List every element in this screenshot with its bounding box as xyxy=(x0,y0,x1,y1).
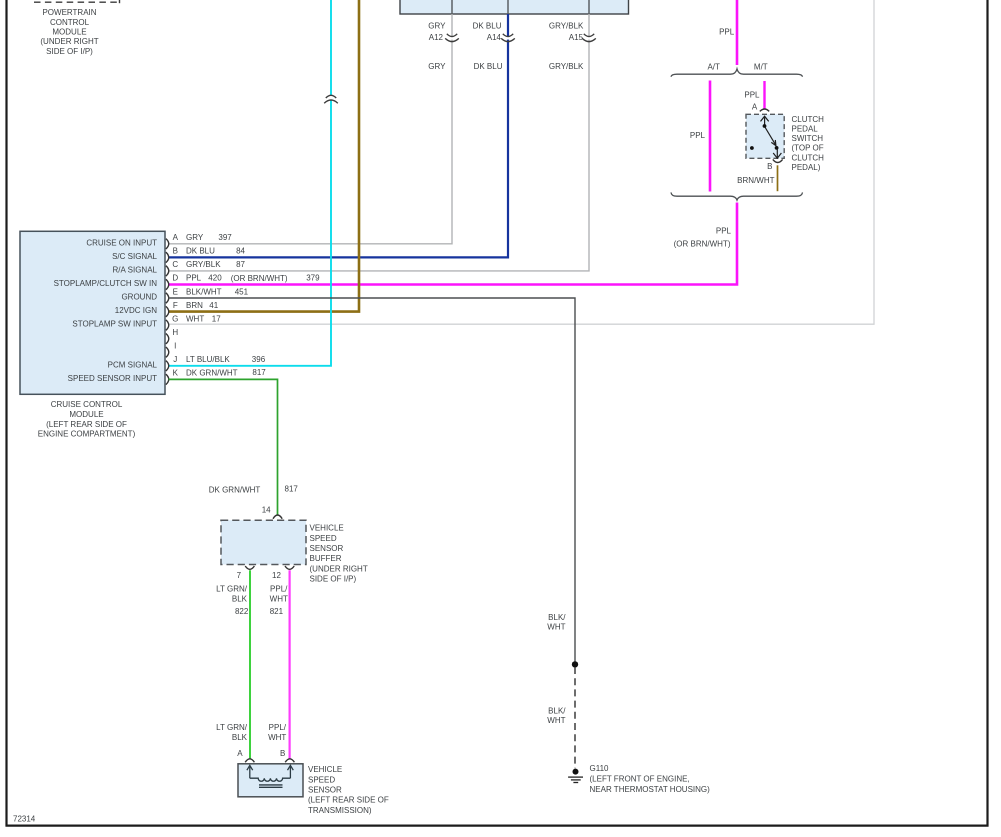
svg-text:VEHICLE: VEHICLE xyxy=(308,765,342,774)
pin G cruise module xyxy=(72,314,221,330)
svg-text:J: J xyxy=(173,355,177,364)
svg-text:K: K xyxy=(173,369,179,378)
svg-text:C: C xyxy=(172,260,178,269)
pin H cruise module xyxy=(166,328,179,344)
wire LT GRN/BLK 822 (buffer pin 7 to VSS pin A) xyxy=(249,570,251,758)
svg-text:PEDAL: PEDAL xyxy=(792,125,819,134)
svg-text:I: I xyxy=(174,342,176,351)
pin F cruise module xyxy=(115,301,219,317)
inline connector at A14 xyxy=(506,37,509,40)
svg-text:CRUISE CONTROL: CRUISE CONTROL xyxy=(51,400,123,409)
pin D cruise module xyxy=(54,274,321,290)
svg-text:MODULE: MODULE xyxy=(52,28,86,37)
wire DK GRN/WHT 817 (cruise module pin K to buffer pin 14) xyxy=(169,379,278,515)
svg-text:WHT: WHT xyxy=(268,733,286,742)
svg-text:PPL: PPL xyxy=(716,227,732,236)
svg-text:GRY: GRY xyxy=(186,233,204,242)
svg-text:STOPLAMP SW INPUT: STOPLAMP SW INPUT xyxy=(72,320,157,329)
svg-text:87: 87 xyxy=(236,260,245,269)
pin A15 labels xyxy=(549,21,584,71)
wire PPL 420 (OR BRN/WHT 379) to cruise module pin D xyxy=(169,203,737,285)
label PPL/WHT 821 (upper) xyxy=(270,585,288,616)
svg-text:PPL/: PPL/ xyxy=(269,723,287,732)
module U3 vehicle speed sensor buffer xyxy=(221,520,306,564)
junction splice on BLK/WHT wire xyxy=(572,661,578,667)
svg-text:84: 84 xyxy=(236,247,245,256)
svg-text:817: 817 xyxy=(285,485,299,494)
svg-text:SWITCH: SWITCH xyxy=(792,134,824,143)
svg-text:STOPLAMP/CLUTCH SW IN: STOPLAMP/CLUTCH SW IN xyxy=(54,279,158,288)
module U1 powertrain control module (dashed outline, cut off at top) xyxy=(34,0,120,3)
svg-text:B: B xyxy=(767,162,772,171)
svg-text:DK GRN/WHT: DK GRN/WHT xyxy=(186,369,238,378)
inline connector on LT BLU/BLK wire xyxy=(330,95,333,100)
label clutch pedal switch xyxy=(792,115,825,172)
label BLK/WHT (lower) xyxy=(547,707,566,726)
svg-text:SENSOR: SENSOR xyxy=(308,786,342,795)
wire WHT 17 (cruise module pin G, off top of page) xyxy=(169,0,874,324)
inline connector at A12 xyxy=(451,37,454,40)
svg-text:SPEED: SPEED xyxy=(310,534,337,543)
svg-text:CLUTCH: CLUTCH xyxy=(792,115,825,124)
svg-text:GROUND: GROUND xyxy=(121,293,157,302)
svg-text:A/T: A/T xyxy=(707,62,720,71)
pin J cruise module xyxy=(108,355,266,371)
svg-text:VEHICLE: VEHICLE xyxy=(310,524,344,533)
pin 12 of VSS buffer xyxy=(285,566,294,569)
svg-text:BLK: BLK xyxy=(232,733,248,742)
pin B of vehicle speed sensor xyxy=(285,759,294,763)
svg-text:WHT: WHT xyxy=(186,314,204,323)
svg-text:D: D xyxy=(172,274,178,283)
svg-text:BRN/WHT: BRN/WHT xyxy=(737,176,774,185)
svg-text:DK BLU: DK BLU xyxy=(474,62,503,71)
svg-text:420: 420 xyxy=(208,274,222,283)
svg-text:12: 12 xyxy=(272,571,281,580)
svg-text:(LEFT FRONT OF ENGINE,: (LEFT FRONT OF ENGINE, xyxy=(590,774,690,783)
svg-text:BUFFER: BUFFER xyxy=(310,554,342,563)
wire GRY 397 (PCM A12 to cruise module pin A) xyxy=(169,14,452,244)
brace merge A/T - M/T xyxy=(671,192,803,200)
svg-text:(OR BRN/WHT): (OR BRN/WHT) xyxy=(231,274,288,283)
sensor VSS vehicle speed sensor xyxy=(238,764,303,797)
svg-text:POWERTRAIN: POWERTRAIN xyxy=(42,8,96,17)
svg-text:GRY/BLK: GRY/BLK xyxy=(549,62,584,71)
svg-text:12VDC IGN: 12VDC IGN xyxy=(115,306,157,315)
svg-text:7: 7 xyxy=(237,571,242,580)
svg-text:A: A xyxy=(752,102,758,111)
svg-text:817: 817 xyxy=(252,368,266,377)
svg-text:PPL: PPL xyxy=(719,28,735,37)
pin A of vehicle speed sensor xyxy=(245,759,254,763)
module U2 cruise control module xyxy=(20,231,165,394)
svg-text:NEAR THERMOSTAT HOUSING): NEAR THERMOSTAT HOUSING) xyxy=(590,785,711,794)
svg-text:CLUTCH: CLUTCH xyxy=(792,153,825,162)
pin C cruise module xyxy=(113,260,246,276)
svg-text:G110: G110 xyxy=(590,764,610,773)
label U3 vehicle speed sensor buffer location xyxy=(310,524,368,584)
svg-text:E: E xyxy=(173,287,178,296)
svg-text:LT GRN/: LT GRN/ xyxy=(216,585,248,594)
wire BRN/WHT from clutch switch pin B xyxy=(777,165,779,191)
pin A12 labels xyxy=(428,21,446,71)
svg-text:SIDE OF I/P): SIDE OF I/P) xyxy=(310,575,357,584)
svg-text:(LEFT REAR SIDE OF: (LEFT REAR SIDE OF xyxy=(46,420,127,429)
svg-text:BLK/WHT: BLK/WHT xyxy=(186,287,222,296)
svg-text:GRY: GRY xyxy=(428,62,446,71)
svg-text:379: 379 xyxy=(306,274,320,283)
svg-text:BLK: BLK xyxy=(232,594,248,603)
wire PPL/WHT 821 (buffer pin 12 to VSS pin B) xyxy=(289,570,291,758)
ground G110 xyxy=(568,769,583,783)
svg-text:451: 451 xyxy=(235,287,249,296)
wire PPL A/T branch xyxy=(709,81,712,192)
wire GRY/BLK 87 (PCM A15 to cruise module pin C) xyxy=(169,14,589,271)
svg-text:PPL: PPL xyxy=(744,91,760,100)
svg-text:PEDAL): PEDAL) xyxy=(792,163,821,172)
svg-text:WHT: WHT xyxy=(547,716,565,725)
svg-text:CRUISE ON INPUT: CRUISE ON INPUT xyxy=(86,238,157,247)
pin A of clutch pedal switch xyxy=(760,109,769,111)
pin K cruise module xyxy=(68,368,267,384)
svg-text:LT GRN/: LT GRN/ xyxy=(216,723,248,732)
svg-text:WHT: WHT xyxy=(270,594,288,603)
wire DK BLU 84 (PCM A14 to cruise module pin B) xyxy=(169,14,508,257)
brace A/T - M/T split xyxy=(671,69,803,77)
pin I cruise module xyxy=(166,342,177,358)
svg-text:SPEED SENSOR INPUT: SPEED SENSOR INPUT xyxy=(68,374,157,383)
svg-text:(UNDER RIGHT: (UNDER RIGHT xyxy=(310,564,368,573)
svg-text:821: 821 xyxy=(270,607,284,616)
pin 14 of VSS buffer xyxy=(273,515,282,519)
svg-text:BLK/: BLK/ xyxy=(548,613,566,622)
svg-text:DK GRN/WHT: DK GRN/WHT xyxy=(209,486,261,495)
svg-text:BLK/: BLK/ xyxy=(548,707,566,716)
svg-text:PPL/: PPL/ xyxy=(270,585,288,594)
svg-text:A15: A15 xyxy=(569,33,584,42)
connector block of PCM (cut off at top) xyxy=(400,0,629,14)
svg-text:GRY/BLK: GRY/BLK xyxy=(549,21,584,30)
svg-text:SENSOR: SENSOR xyxy=(310,544,344,553)
svg-text:396: 396 xyxy=(252,355,266,364)
svg-text:41: 41 xyxy=(209,301,218,310)
wire BLK/WHT dashed segment to G110 xyxy=(574,667,576,768)
label BLK/WHT (upper) xyxy=(547,613,566,632)
svg-text:822: 822 xyxy=(235,607,249,616)
svg-text:CONTROL: CONTROL xyxy=(50,18,90,27)
wire BLK/WHT 451 (cruise module pin E to G110) xyxy=(169,298,575,662)
pin B cruise module xyxy=(112,247,245,263)
svg-text:PPL: PPL xyxy=(690,131,706,140)
label LT GRN/BLK 822 (upper) xyxy=(216,585,249,616)
svg-text:PCM SIGNAL: PCM SIGNAL xyxy=(108,360,158,369)
svg-text:A12: A12 xyxy=(429,33,444,42)
svg-text:(LEFT REAR SIDE OF: (LEFT REAR SIDE OF xyxy=(308,796,389,805)
svg-text:WHT: WHT xyxy=(547,623,565,632)
svg-text:BRN: BRN xyxy=(186,301,203,310)
svg-text:(OR BRN/WHT): (OR BRN/WHT) xyxy=(674,239,731,248)
pin B of clutch pedal switch xyxy=(773,159,783,162)
wire BRN 41 (cruise module pin F, off top of page) xyxy=(169,0,359,312)
pin 7 of VSS buffer xyxy=(245,566,254,569)
label PPL/WHT (lower) xyxy=(268,723,287,742)
wire LT BLU/BLK 396 (cruise module pin J, off top of page) xyxy=(169,0,331,366)
wire PPL 420 from top of page xyxy=(736,0,739,65)
svg-text:A: A xyxy=(237,749,243,758)
svg-text:B: B xyxy=(173,247,178,256)
svg-text:B: B xyxy=(280,749,285,758)
inline connector at A15 xyxy=(588,37,591,40)
svg-text:72314: 72314 xyxy=(13,815,36,824)
pin E cruise module xyxy=(121,287,248,303)
svg-text:397: 397 xyxy=(218,233,232,242)
svg-text:(TOP OF: (TOP OF xyxy=(792,144,824,153)
pin A cruise module xyxy=(86,233,232,249)
svg-text:(UNDER RIGHT: (UNDER RIGHT xyxy=(40,37,98,46)
switch S1 clutch pedal switch xyxy=(746,114,784,158)
label U1 powertrain control module location xyxy=(40,8,98,56)
svg-text:H: H xyxy=(172,328,178,337)
svg-text:DK BLU: DK BLU xyxy=(186,247,215,256)
svg-text:M/T: M/T xyxy=(754,62,768,71)
svg-text:MODULE: MODULE xyxy=(69,410,103,419)
svg-text:14: 14 xyxy=(262,506,271,515)
label LT GRN/BLK (lower) xyxy=(216,723,248,742)
svg-text:F: F xyxy=(173,301,178,310)
svg-text:A14: A14 xyxy=(487,33,502,42)
svg-text:S/C SIGNAL: S/C SIGNAL xyxy=(112,252,157,261)
pin A14 labels xyxy=(473,21,503,71)
svg-text:GRY/BLK: GRY/BLK xyxy=(186,260,221,269)
svg-text:PPL: PPL xyxy=(186,274,202,283)
svg-text:GRY: GRY xyxy=(428,21,446,30)
label U2 cruise control module location xyxy=(38,400,136,439)
label G110 location xyxy=(590,764,711,794)
svg-text:R/A SIGNAL: R/A SIGNAL xyxy=(113,266,158,275)
svg-text:17: 17 xyxy=(212,314,221,323)
svg-text:G: G xyxy=(172,314,178,323)
wire PPL M/T branch to clutch switch xyxy=(763,81,765,110)
label VSS location xyxy=(308,765,389,815)
svg-text:DK BLU: DK BLU xyxy=(473,21,502,30)
svg-text:TRANSMISSION): TRANSMISSION) xyxy=(308,806,372,815)
svg-text:ENGINE COMPARTMENT): ENGINE COMPARTMENT) xyxy=(38,430,136,439)
svg-text:SPEED: SPEED xyxy=(308,775,335,784)
svg-text:LT BLU/BLK: LT BLU/BLK xyxy=(186,355,230,364)
svg-text:A: A xyxy=(173,233,179,242)
svg-text:SIDE OF I/P): SIDE OF I/P) xyxy=(46,47,93,56)
